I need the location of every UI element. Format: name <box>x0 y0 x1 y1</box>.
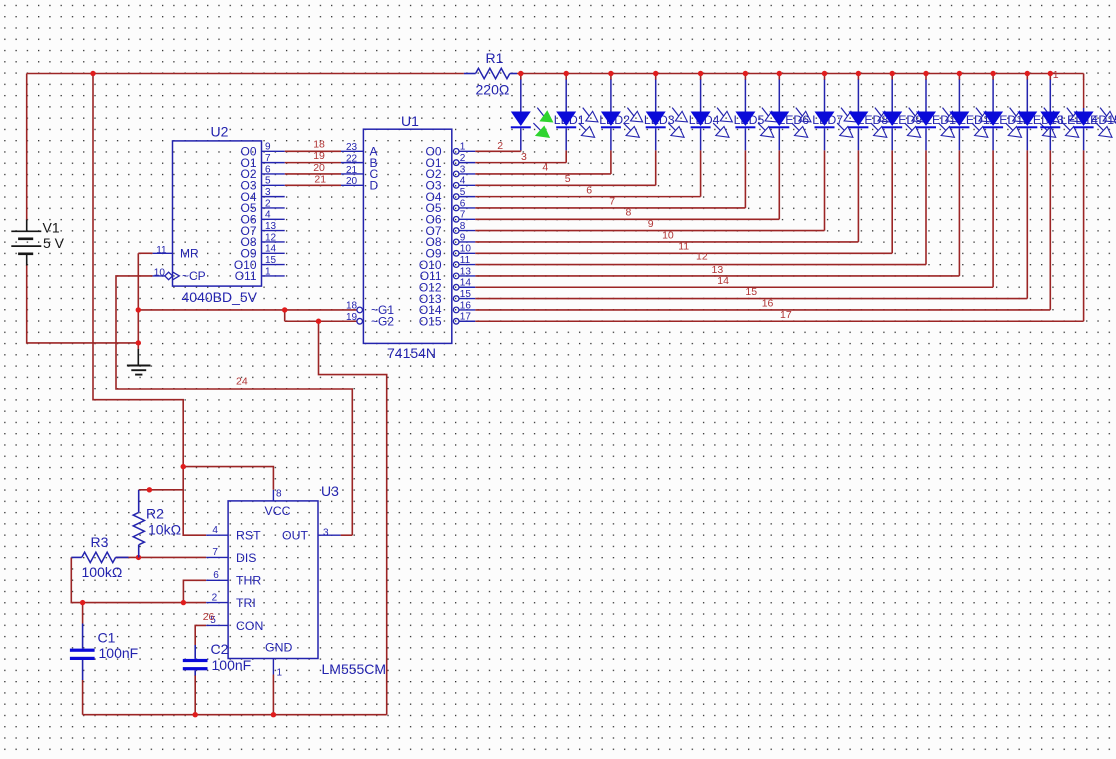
svg-text:5: 5 <box>565 173 571 185</box>
svg-text:R1: R1 <box>486 50 504 66</box>
svg-text:4: 4 <box>460 176 466 187</box>
svg-text:15: 15 <box>265 255 277 266</box>
wire R2 top branch <box>139 489 184 491</box>
wire C1 branch and ground rail bottom <box>83 603 387 715</box>
svg-text:100kΩ: 100kΩ <box>82 564 123 580</box>
svg-text:U2: U2 <box>211 124 229 140</box>
wire net 19: U2 O1 to U1 B <box>285 162 341 164</box>
wire net LED7: U1 O6 to LED7 cathode <box>475 150 779 219</box>
LED5 light-emitting diode <box>691 80 765 151</box>
svg-text:2: 2 <box>212 592 218 603</box>
svg-text:14: 14 <box>460 278 472 289</box>
svg-text:21: 21 <box>314 174 326 186</box>
svg-text:15: 15 <box>460 289 472 300</box>
junction dot battery-/ground <box>136 340 141 345</box>
wire +5V drop at x=93 to VCC feed <box>93 74 206 536</box>
svg-text:~G2: ~G2 <box>371 314 394 328</box>
wire net LED14: U1 O13 to LED14 cathode <box>475 150 1027 298</box>
svg-text:5 V: 5 V <box>43 235 65 251</box>
svg-text:10kΩ: 10kΩ <box>148 522 181 538</box>
U1 pin numbers <box>346 142 471 323</box>
svg-text:4: 4 <box>265 210 271 221</box>
junction dot R2 bottom / DIS <box>136 555 141 560</box>
svg-text:7: 7 <box>212 547 218 558</box>
svg-text:6: 6 <box>213 570 219 581</box>
svg-text:16: 16 <box>762 297 774 309</box>
wire MR net down to ground <box>138 253 152 350</box>
LED6 light-emitting diode <box>735 80 809 151</box>
svg-text:13: 13 <box>712 264 724 276</box>
svg-text:14: 14 <box>717 275 729 287</box>
svg-text:15: 15 <box>745 286 757 298</box>
svg-text:11: 11 <box>678 241 689 253</box>
svg-text:O11: O11 <box>235 269 257 283</box>
wire net LED12: U1 O11 to LED12 cathode <box>475 150 959 276</box>
svg-text:RST: RST <box>236 529 261 543</box>
wire ground net riser to ~G2 <box>319 321 387 714</box>
svg-text:U3: U3 <box>321 483 339 499</box>
svg-text:2: 2 <box>265 198 271 209</box>
junction dot C1 / TRI <box>80 600 85 605</box>
svg-text:5: 5 <box>265 176 271 187</box>
capacitor C2 100nF <box>183 641 251 676</box>
battery V1 <box>11 220 64 266</box>
svg-text:5: 5 <box>460 187 466 198</box>
svg-text:11: 11 <box>156 245 167 256</box>
wire net LED5: U1 O4 to LED5 cathode <box>475 150 700 196</box>
wire net LED16: U1 O15 to LED16 cathode <box>475 150 1083 321</box>
U3 pin numbers <box>210 488 329 678</box>
svg-text:100nF: 100nF <box>212 657 252 673</box>
junction dot ~G2 riser <box>316 319 321 324</box>
svg-text:19: 19 <box>313 150 325 162</box>
svg-text:1: 1 <box>1053 69 1059 81</box>
svg-text:OUT: OUT <box>282 529 308 543</box>
svg-text:23: 23 <box>346 142 358 153</box>
svg-text:1: 1 <box>460 142 466 153</box>
wire net LED1: U1 O0 to LED1 cathode <box>475 150 521 151</box>
LED9 light-emitting diode <box>848 80 922 151</box>
svg-text:TRI: TRI <box>236 596 256 610</box>
svg-text:10: 10 <box>460 244 472 255</box>
svg-text:C1: C1 <box>98 630 116 646</box>
svg-text:DIS: DIS <box>236 551 257 565</box>
svg-text:1: 1 <box>265 266 271 277</box>
wire DIS net: R3/R2 to U3 pin 7 <box>116 556 207 558</box>
svg-text:7: 7 <box>609 196 615 208</box>
junction dot U3 GND / ground rail <box>271 712 276 717</box>
capacitor C1 100nF <box>70 624 138 681</box>
junction dot MR/ground at ~G1 row <box>136 307 141 312</box>
svg-text:12: 12 <box>696 250 708 262</box>
svg-text:9: 9 <box>648 218 654 230</box>
wire +5V net: battery top to rail <box>27 74 464 221</box>
svg-text:17: 17 <box>780 309 792 321</box>
svg-text:3: 3 <box>323 527 329 538</box>
svg-text:20: 20 <box>346 176 358 187</box>
svg-text:11: 11 <box>460 255 471 266</box>
svg-text:C2: C2 <box>211 641 229 657</box>
svg-text:R3: R3 <box>91 534 109 550</box>
wire battery negative to ground node <box>27 265 139 343</box>
junction dot C2 / ground rail <box>193 712 198 717</box>
wire net LED10: U1 O9 to LED10 cathode <box>475 150 892 253</box>
svg-text:20: 20 <box>313 162 325 174</box>
svg-text:74154N: 74154N <box>387 345 436 361</box>
junction dot ~G1 jog <box>282 307 287 312</box>
svg-text:26: 26 <box>203 611 215 623</box>
svg-text:17: 17 <box>460 312 472 323</box>
LED12 light-emitting diode <box>949 80 1030 151</box>
LED14 light-emitting diode <box>1017 80 1098 151</box>
wire net LED2: U1 O1 to LED2 cathode <box>475 150 566 162</box>
junction dots on +5V rail <box>90 71 1053 76</box>
resistor R3 100k <box>71 534 128 580</box>
svg-text:8: 8 <box>460 221 466 232</box>
wire ~G2 row jog <box>285 310 357 321</box>
wire U3 GND pin to ground rail <box>272 675 274 715</box>
svg-text:2: 2 <box>497 140 503 152</box>
svg-text:O15: O15 <box>419 314 442 328</box>
LED15 light-emitting diode <box>1040 80 1116 151</box>
svg-text:24: 24 <box>236 376 248 388</box>
LED10 light-emitting diode <box>882 80 963 151</box>
wire net 18: U2 O0 to U1 A <box>285 150 341 152</box>
LED13 light-emitting diode <box>983 80 1064 151</box>
wire net LED11: U1 O10 to LED11 cathode <box>475 150 926 264</box>
svg-text:9: 9 <box>265 142 271 153</box>
svg-text:VCC: VCC <box>265 504 291 518</box>
wire net LED8: U1 O7 to LED8 cathode <box>475 150 824 230</box>
wire net LED6: U1 O5 to LED6 cathode <box>475 150 745 208</box>
wire THR branch <box>183 580 206 602</box>
svg-text:18: 18 <box>313 138 325 150</box>
wire clock net: U3 OUT to U2 ~CP (net 24) <box>116 276 352 535</box>
svg-text:16: 16 <box>460 300 472 311</box>
svg-text:6: 6 <box>586 184 592 196</box>
svg-text:22: 22 <box>346 153 358 164</box>
svg-text:8: 8 <box>276 488 282 499</box>
wire net LED15: U1 O14 to LED15 cathode <box>475 150 1050 310</box>
junction dot R2 top <box>147 487 152 492</box>
svg-text:19: 19 <box>346 312 358 323</box>
wire TRI net: R3 left down to U3 pin 2 <box>71 557 206 602</box>
svg-text:10: 10 <box>154 268 166 279</box>
svg-text:21: 21 <box>346 165 358 176</box>
svg-text:1: 1 <box>277 668 283 679</box>
svg-text:13: 13 <box>265 221 277 232</box>
svg-text:MR: MR <box>180 246 199 260</box>
svg-text:4: 4 <box>542 162 548 174</box>
svg-text:THR: THR <box>236 574 261 588</box>
svg-text:100nF: 100nF <box>99 645 139 661</box>
wire net 21: U2 O3 to U1 D <box>285 184 341 186</box>
svg-text:10: 10 <box>662 230 674 242</box>
LED16 light-emitting diode <box>1074 80 1116 151</box>
wire CON net to C2 <box>195 625 206 714</box>
svg-text:CON: CON <box>236 619 263 633</box>
svg-text:7: 7 <box>460 210 466 221</box>
wire net LED9: U1 O8 to LED9 cathode <box>475 150 858 242</box>
svg-text:V1: V1 <box>43 220 60 236</box>
svg-text:GND: GND <box>265 641 292 655</box>
wire net LED13: U1 O12 to LED13 cathode <box>475 150 993 287</box>
wire net 20: U2 O2 to U1 C <box>285 173 341 175</box>
svg-text:2: 2 <box>460 153 466 164</box>
junction dot THR / TRI <box>181 600 186 605</box>
svg-text:3: 3 <box>265 187 271 198</box>
svg-text:U1: U1 <box>401 113 419 129</box>
IC U3 LM555CM timer <box>206 483 386 677</box>
junction dot VCC branch <box>181 464 186 469</box>
svg-text:D: D <box>370 178 379 192</box>
IC U2 4040BD_5V counter <box>153 124 285 305</box>
resistor R1 220 ohm <box>464 50 517 98</box>
svg-text:4040BD_5V: 4040BD_5V <box>182 289 258 305</box>
svg-text:220Ω: 220Ω <box>476 82 510 98</box>
svg-text:R2: R2 <box>146 506 164 522</box>
resistor R2 10k <box>133 490 181 558</box>
IC U1 74154N demultiplexer <box>341 113 475 361</box>
wire net LED3: U1 O2 to LED3 cathode <box>475 150 611 174</box>
wire net LED4: U1 O3 to LED4 cathode <box>475 150 656 185</box>
LED3 light-emitting diode <box>601 80 675 151</box>
svg-text:~CP: ~CP <box>182 269 206 283</box>
svg-text:3: 3 <box>521 151 527 163</box>
svg-text:8: 8 <box>626 207 632 219</box>
svg-text:4: 4 <box>212 525 218 536</box>
LED1 light-emitting diode <box>511 80 585 151</box>
svg-text:9: 9 <box>460 232 466 243</box>
svg-text:LM555CM: LM555CM <box>322 661 387 677</box>
svg-text:18: 18 <box>346 301 358 312</box>
wire ~G1 row to ground net <box>138 309 356 311</box>
svg-text:14: 14 <box>265 244 277 255</box>
LED2 light-emitting diode <box>556 80 630 151</box>
LED7 light-emitting diode <box>769 80 843 151</box>
LED4 light-emitting diode <box>646 80 720 151</box>
svg-text:6: 6 <box>460 198 466 209</box>
wire +5V rail: R1 to LED anodes <box>517 74 1084 81</box>
LED8 light-emitting diode <box>815 80 889 151</box>
svg-text:6: 6 <box>265 164 271 175</box>
svg-text:3: 3 <box>460 164 466 175</box>
wire VCC branch to U3 pin 8 <box>183 467 273 490</box>
U2 pin numbers <box>154 142 277 279</box>
svg-text:13: 13 <box>460 266 472 277</box>
ground <box>127 349 151 375</box>
LED11 light-emitting diode <box>916 80 996 151</box>
svg-text:7: 7 <box>265 153 271 164</box>
svg-text:12: 12 <box>265 232 277 243</box>
